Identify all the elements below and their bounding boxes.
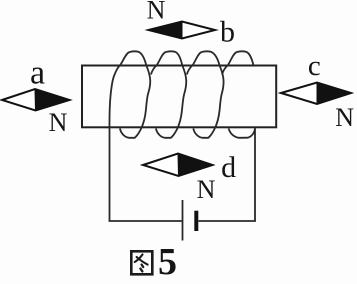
svg-text:N: N: [197, 175, 216, 204]
svg-text:c: c: [308, 50, 321, 82]
svg-text:5: 5: [158, 241, 177, 283]
svg-text:a: a: [30, 55, 45, 92]
svg-text:N: N: [335, 103, 354, 132]
svg-text:b: b: [220, 16, 235, 49]
svg-text:d: d: [221, 151, 236, 184]
svg-text:N: N: [49, 108, 68, 137]
svg-text:N: N: [147, 0, 166, 25]
